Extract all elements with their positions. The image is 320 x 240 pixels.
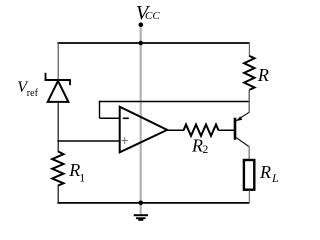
wire top rail [57,42,250,44]
svg-text:1: 1 [79,171,85,185]
wire left branch middle [57,102,59,152]
wire op-amp - input [100,117,120,119]
svg-text:2: 2 [203,144,209,156]
wire op-amp + input [57,140,119,142]
junction dot bottom rail [139,201,144,206]
wire feedback vertical [99,101,101,118]
svg-text:R: R [257,65,269,85]
wire bottom rail [57,202,249,204]
VCC power rail (gray vertical line) [140,25,142,214]
op-amp U1 [120,107,168,153]
wire op-amp output [167,129,184,131]
wire R2 to base [219,129,236,131]
svg-text:L: L [271,171,279,185]
resistor RL (box style) [244,160,254,190]
resistor R [244,56,254,90]
svg-text:R: R [259,162,271,182]
wire right branch top [248,42,250,57]
wire feedback horizontal [99,101,249,103]
wire left branch lower [57,185,59,203]
svg-text:ref: ref [27,88,39,99]
wire R to feedback node [248,90,250,113]
svg-text:CC: CC [145,10,160,22]
wire collector to RL [248,146,250,160]
svg-text:R: R [191,136,203,156]
VCC terminal dot [139,22,144,27]
wire left branch upper [57,42,59,80]
resistor R1 [52,151,63,185]
zener diode Vref [45,73,71,102]
resistor R2 [184,125,219,136]
transistor Q1 (PNP) [235,112,249,147]
junction dot top rail [139,41,144,46]
ground symbol [134,215,148,220]
wire RL to bottom rail [248,191,250,204]
